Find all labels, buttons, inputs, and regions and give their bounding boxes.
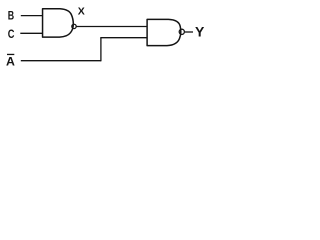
wire A-bar input xyxy=(21,60,101,62)
NAND gate U2 output bubble xyxy=(179,29,184,34)
NAND gate U1 output bubble xyxy=(72,24,76,28)
wire riser from A-bar to gate 2 xyxy=(100,38,102,62)
svg-text:C: C xyxy=(8,27,15,41)
svg-text:A: A xyxy=(6,54,15,68)
svg-text:X: X xyxy=(78,6,85,18)
NAND gate U2 body xyxy=(147,19,181,45)
wire X net (U1 output to U2 upper input) xyxy=(76,26,147,28)
svg-text:B: B xyxy=(8,8,15,22)
wire to U2 lower input xyxy=(100,37,147,39)
svg-text:Y: Y xyxy=(195,24,205,40)
overbar of A-bar xyxy=(7,54,14,55)
NAND gate U1 body xyxy=(43,9,74,37)
wire C input xyxy=(20,32,42,34)
wire U2 output to Y xyxy=(185,31,193,33)
wire B input xyxy=(21,15,43,17)
